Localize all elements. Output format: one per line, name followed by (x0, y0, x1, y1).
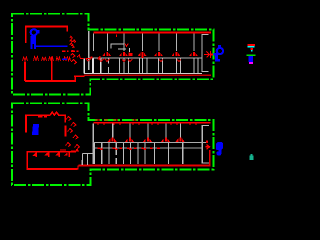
red squiggle text row (wall annotation) (23, 57, 71, 61)
door marks: red clusters at partitions (bottom building) (108, 138, 185, 142)
wall: corridor wall (top building) (89, 57, 202, 59)
red marks at west junction (91, 57, 93, 59)
wall: lower room divider (51, 57, 53, 81)
symbol: blue person figure (31, 29, 40, 49)
wall: red upturn at east end (209, 150, 211, 165)
wall: porch edge wall (bottom building) (93, 147, 202, 149)
wall: closet tee (111, 44, 124, 49)
wall: west end wall gray (bottom building) (92, 124, 94, 165)
wall: building bottom dark red line (84, 74, 211, 76)
wall: red ledge at junction (74, 75, 84, 77)
wall: lower row partitions (bottom building) (95, 143, 183, 164)
fan coil red mark in room (125, 44, 128, 47)
door triangles in lower room (32, 152, 67, 156)
room: lower room red outline (bottom block) (27, 151, 76, 153)
site boundary (green dash-dot) bottom complex (12, 103, 213, 185)
red glyphs near junction (71, 54, 81, 65)
red ticks on top line (98, 122, 196, 125)
porch red door marks (bottom building) (98, 147, 161, 150)
red tick at room corner (76, 149, 78, 151)
red dashes above top line (95, 119, 137, 121)
tiny red tick below top line (116, 35, 118, 38)
room: upper room red outline (bottom block) (26, 115, 50, 132)
wall: partitions (bottom building) (113, 124, 181, 142)
door marks: red checks below corridor wall (top building) (86, 59, 181, 62)
symbol: blue panel (32, 124, 39, 135)
wall: lower room bottom (25, 80, 76, 82)
door swing M notch (50, 112, 65, 122)
wall: building top red line (94, 32, 212, 34)
junction gray walls (bottom) (82, 153, 93, 165)
red tick on corridor wall (141, 56, 143, 58)
wall: lower room stubs (36, 152, 69, 158)
site boundary (green dash-dot) top complex (12, 14, 213, 95)
wall: lower row partitions (top building) (84, 58, 194, 73)
wall: junction bright walls (84, 58, 100, 73)
wall: west end wall gray (88, 31, 90, 70)
symbol: blue flag at corridor east end (214, 45, 223, 62)
wall: room partitions upper row (top building) (94, 34, 195, 52)
legend color stack (248, 44, 256, 46)
door mark: corridor end arrow (top building) (204, 51, 211, 58)
wall: red connector to building line (74, 76, 76, 82)
door mark: corridor end chevron (bottom building) (206, 145, 210, 150)
red dash-dot row (62, 50, 79, 52)
door marks: red clusters at partitions (top building) (102, 52, 198, 56)
wall: lower outer wall (top building) (84, 72, 202, 74)
room: lower room red outline (24, 62, 26, 82)
red tick at flag (211, 54, 213, 56)
room: upper room red outline (26, 27, 67, 43)
wall: red connector to building bottom line (77, 165, 79, 169)
red thick wall segment (65, 125, 67, 136)
symbol: blue flag at corridor east end (bottom) (216, 142, 223, 156)
red glyph cascade (site notes) (66, 117, 80, 149)
wall: building bottom red line (bottom) (79, 164, 211, 166)
red dashes on top line (38, 116, 47, 118)
symbol: blue datum line (36, 45, 67, 47)
symbol: small blue dash (62, 58, 67, 60)
red text column right of upper room (70, 36, 76, 48)
wall: building top red line (bottom) (94, 122, 211, 124)
symbol: teal marker (249, 155, 253, 160)
wall: east end wall gray (202, 35, 209, 72)
wall: east end wall gray (bottom building) (202, 126, 209, 164)
wall: corridor wall (bottom building) (93, 142, 207, 144)
